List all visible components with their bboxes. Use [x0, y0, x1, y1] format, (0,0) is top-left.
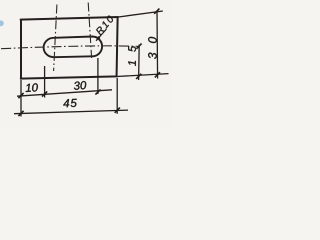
leader line R10 — [96, 29, 107, 41]
vertical centerline left arc — [54, 5, 57, 72]
tick at 10/30 junction — [42, 91, 47, 96]
value 10 — [25, 83, 38, 92]
tick at 30right bottom — [155, 72, 160, 77]
extension line top edge extended right — [118, 11, 163, 17]
dimension line 10 / 30 — [17, 90, 112, 96]
label R10 — [95, 15, 114, 35]
dimension line 30 right — [156, 11, 159, 78]
paper grain — [0, 0, 171, 128]
tick at 45 right — [115, 108, 120, 113]
tick at 30 right — [95, 89, 100, 94]
dimension line 15 — [138, 45, 141, 81]
paper background — [0, 0, 171, 128]
value 30 right — [148, 37, 156, 59]
tick at 30right top — [154, 9, 159, 14]
value 45 — [63, 99, 77, 107]
extension line 30 right end — [97, 58, 99, 94]
extension line slot left tangent — [44, 66, 46, 98]
tick at 45 left — [18, 111, 23, 116]
horizontal centerline — [1, 46, 140, 49]
vertical centerline right arc — [88, 3, 91, 59]
plate outline — [20, 16, 119, 79]
extension line left edge (bottom dims) — [20, 80, 22, 117]
extension line right edge (45 dim) — [116, 78, 118, 114]
leader arrowhead — [96, 36, 101, 41]
value 15 — [128, 46, 136, 66]
tick at 10 left — [18, 93, 23, 98]
value 30 bottom — [74, 81, 87, 90]
slot (obround hole) — [44, 37, 103, 58]
blue ink dot artifact — [0, 20, 4, 26]
tick at 15 top — [136, 44, 141, 49]
extension line bottom edge extended right — [117, 74, 169, 77]
dimension line 45 — [14, 110, 128, 114]
tick at 15 bottom — [136, 74, 141, 79]
